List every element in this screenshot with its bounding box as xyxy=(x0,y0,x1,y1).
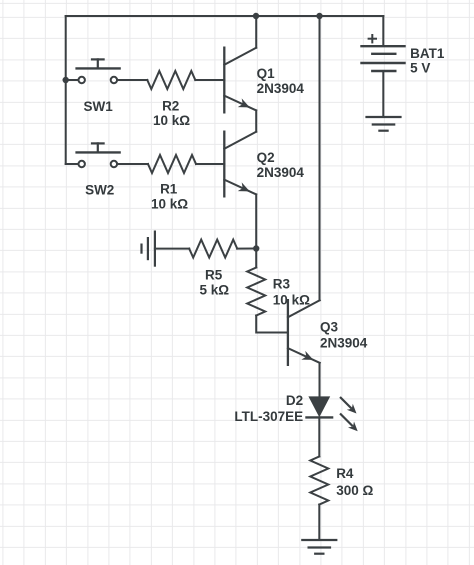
wire R3 to Q3 base xyxy=(256,316,288,333)
ground at battery xyxy=(367,117,401,131)
svg-text:BAT1: BAT1 xyxy=(410,46,445,61)
wire R5 to node xyxy=(237,248,256,250)
svg-text:Q1: Q1 xyxy=(257,66,276,81)
wire left rail to SW2 xyxy=(66,163,79,165)
svg-text:LTL-307EE: LTL-307EE xyxy=(234,409,303,424)
svg-text:Q3: Q3 xyxy=(320,320,339,335)
wire left rail to SW1 xyxy=(66,79,79,81)
pushbutton SW1 xyxy=(77,59,120,83)
svg-text:SW1: SW1 xyxy=(83,99,113,114)
svg-text:R3: R3 xyxy=(273,277,291,292)
wire top supply rail xyxy=(66,15,384,17)
svg-text:2N3904: 2N3904 xyxy=(320,336,368,351)
svg-text:D2: D2 xyxy=(286,393,303,408)
svg-text:R4: R4 xyxy=(336,466,354,481)
resistor R2 xyxy=(147,71,195,89)
battery BAT1 xyxy=(362,16,405,71)
LED D2 xyxy=(307,396,333,417)
pushbutton SW2 xyxy=(77,143,120,167)
svg-text:10 kΩ: 10 kΩ xyxy=(273,293,310,308)
node junction top rail / right rail xyxy=(316,13,322,19)
svg-text:R2: R2 xyxy=(162,99,179,114)
resistor R5 xyxy=(189,240,237,258)
LED light arrow 2 xyxy=(341,414,358,431)
wire left rail xyxy=(65,16,67,164)
svg-text:2N3904: 2N3904 xyxy=(257,81,305,96)
wire right rail to Q3 collector xyxy=(319,16,321,300)
svg-text:R5: R5 xyxy=(205,267,223,282)
LED light arrow 1 xyxy=(341,398,357,414)
ground at R5 (facing left) xyxy=(142,232,155,266)
svg-text:10 kΩ: 10 kΩ xyxy=(153,113,190,128)
resistor R1 xyxy=(148,155,196,173)
wire LED to R4 xyxy=(318,417,320,456)
transistor Q1 xyxy=(224,48,256,113)
svg-text:Q2: Q2 xyxy=(257,150,275,165)
resistor R3 xyxy=(247,268,265,316)
wire Q1 collector to top rail xyxy=(255,16,257,48)
node junction R5 / R3 xyxy=(253,245,259,251)
node junction top rail / Q1 collector xyxy=(253,13,259,19)
ground bottom xyxy=(302,540,336,554)
wire R2 to Q1 base xyxy=(195,79,224,81)
transistor Q2 xyxy=(224,132,256,197)
wire Q1 emitter to Q2 collector xyxy=(255,110,257,131)
svg-text:300 Ω: 300 Ω xyxy=(336,483,373,498)
resistor R4 xyxy=(310,457,328,505)
wire R4 to ground xyxy=(318,505,320,541)
wire R1 to Q2 base xyxy=(196,163,224,165)
svg-text:5 kΩ: 5 kΩ xyxy=(200,282,230,297)
svg-text:2N3904: 2N3904 xyxy=(257,165,305,180)
svg-text:SW2: SW2 xyxy=(85,182,114,197)
node junction left rail / SW1 xyxy=(62,77,68,83)
wire node to R3 xyxy=(255,249,257,268)
wire SW2 to R1 xyxy=(117,163,148,165)
wire battery to ground xyxy=(382,71,384,117)
transistor Q3 xyxy=(288,300,320,365)
svg-text:R1: R1 xyxy=(160,182,178,197)
wire Q3 emitter to LED anode xyxy=(319,363,321,397)
svg-text:5 V: 5 V xyxy=(410,61,430,76)
svg-text:10 kΩ: 10 kΩ xyxy=(151,196,188,211)
wire ground to R5 xyxy=(155,248,189,250)
wire SW1 to R2 xyxy=(117,79,147,81)
wire Q2 emitter to node xyxy=(255,194,257,248)
